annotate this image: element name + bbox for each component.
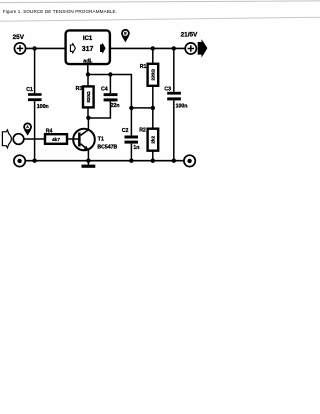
svg-text:100n: 100n xyxy=(176,104,188,110)
svg-text:25V: 25V xyxy=(13,34,25,41)
capacitor C3 xyxy=(167,92,181,101)
wire C2 bottom lead xyxy=(130,144,132,161)
junction R1 bottom / R2 top xyxy=(151,106,155,110)
junction C3 bottom xyxy=(172,159,176,163)
svg-text:B: B xyxy=(124,32,127,36)
resistor R3 xyxy=(83,86,94,107)
wire C1 bottom lead xyxy=(34,101,36,161)
junction C4 top xyxy=(108,72,112,76)
resistor R2 leads xyxy=(152,108,154,129)
wire cross link to R1/R2 node xyxy=(131,107,152,109)
wire IC1 output to terminal xyxy=(110,47,185,49)
svg-text:100n: 100n xyxy=(37,104,49,110)
terminal +25V input xyxy=(14,43,25,54)
svg-text:R1: R1 xyxy=(140,64,147,70)
top rule xyxy=(0,1,320,3)
svg-text:IC1: IC1 xyxy=(83,36,93,42)
transistor T1 xyxy=(73,129,95,151)
svg-text:22n: 22n xyxy=(111,103,120,109)
svg-text:R3: R3 xyxy=(76,86,83,92)
capacitor C3 leads xyxy=(173,48,175,91)
wire input terminal to R4 xyxy=(24,138,45,140)
capacitor C2 lead top xyxy=(130,108,132,136)
op-amp U1 / regulator IC1 body xyxy=(66,30,110,64)
pin input arrow (hollow) of IC1 xyxy=(70,44,75,53)
wire bottom rail xyxy=(25,160,184,162)
junction adj node left xyxy=(86,72,90,76)
svg-text:220Ω: 220Ω xyxy=(150,69,155,81)
ground xyxy=(82,161,96,168)
wire collector xyxy=(87,118,89,130)
junction C1 bottom xyxy=(32,159,36,163)
svg-text:BC547B: BC547B xyxy=(97,144,117,150)
svg-text:T1: T1 xyxy=(98,136,104,142)
svg-text:4k7: 4k7 xyxy=(52,137,60,143)
svg-text:R4: R4 xyxy=(46,128,53,134)
svg-text:Figure 1. SOURCE DE TENSION PR: Figure 1. SOURCE DE TENSION PROGRAMMABLE… xyxy=(3,9,117,14)
resistor R2 xyxy=(148,129,159,151)
caption rule xyxy=(0,17,320,21)
junction collector node xyxy=(86,116,90,120)
svg-text:R2: R2 xyxy=(139,128,146,134)
node marker B (probe point on output rail) xyxy=(121,29,130,43)
junction C3 top xyxy=(172,46,176,50)
wire IC1 adj pin xyxy=(87,64,89,74)
capacitor C4 xyxy=(104,93,118,101)
resistor R3 leads xyxy=(87,75,89,87)
svg-text:21/5V: 21/5V xyxy=(181,31,198,38)
svg-text:317: 317 xyxy=(82,46,94,53)
capacitor C1 xyxy=(28,93,42,101)
wire adj node across xyxy=(88,74,110,76)
wire C4 bottom to collector node xyxy=(88,101,110,118)
junction emitter rail xyxy=(86,159,90,163)
svg-text:C1: C1 xyxy=(26,87,33,93)
svg-text:2k2: 2k2 xyxy=(150,136,155,144)
pin output arrow (filled) of IC1 xyxy=(100,43,106,54)
junction R1 top xyxy=(151,46,155,50)
svg-text:C2: C2 xyxy=(122,128,129,134)
junction C2 bottom xyxy=(129,159,133,163)
svg-text:A: A xyxy=(26,125,29,129)
junction R2 bottom xyxy=(151,159,155,163)
node marker A (probe point on input) xyxy=(23,122,32,135)
input arrow symbol (hollow) xyxy=(2,130,11,148)
svg-text:C4: C4 xyxy=(101,87,108,93)
terminal ground left xyxy=(14,155,25,166)
svg-text:1n: 1n xyxy=(133,145,139,151)
svg-text:adj.: adj. xyxy=(83,58,93,64)
wire emitter to rail xyxy=(87,150,89,161)
resistor R1 xyxy=(148,64,159,86)
junction C2 top xyxy=(129,106,133,110)
svg-text:C3: C3 xyxy=(164,86,171,92)
resistor R4 xyxy=(45,134,67,144)
capacitor C4 lead top xyxy=(109,75,111,94)
wire R4 to base xyxy=(67,138,78,140)
capacitor C2 xyxy=(125,136,139,144)
wire input to IC1 xyxy=(26,47,66,49)
wire adj node to C2 column xyxy=(110,75,131,108)
svg-text:820Ω: 820Ω xyxy=(86,91,91,103)
wire C1 top lead xyxy=(34,48,36,93)
junction C1 top xyxy=(32,46,36,50)
terminal ground right xyxy=(184,155,195,166)
terminal signal input (open circle) xyxy=(13,134,24,145)
resistor R1 leads xyxy=(152,48,154,63)
output arrow symbol (filled) xyxy=(198,39,208,57)
terminal +21/5V output xyxy=(185,43,196,54)
